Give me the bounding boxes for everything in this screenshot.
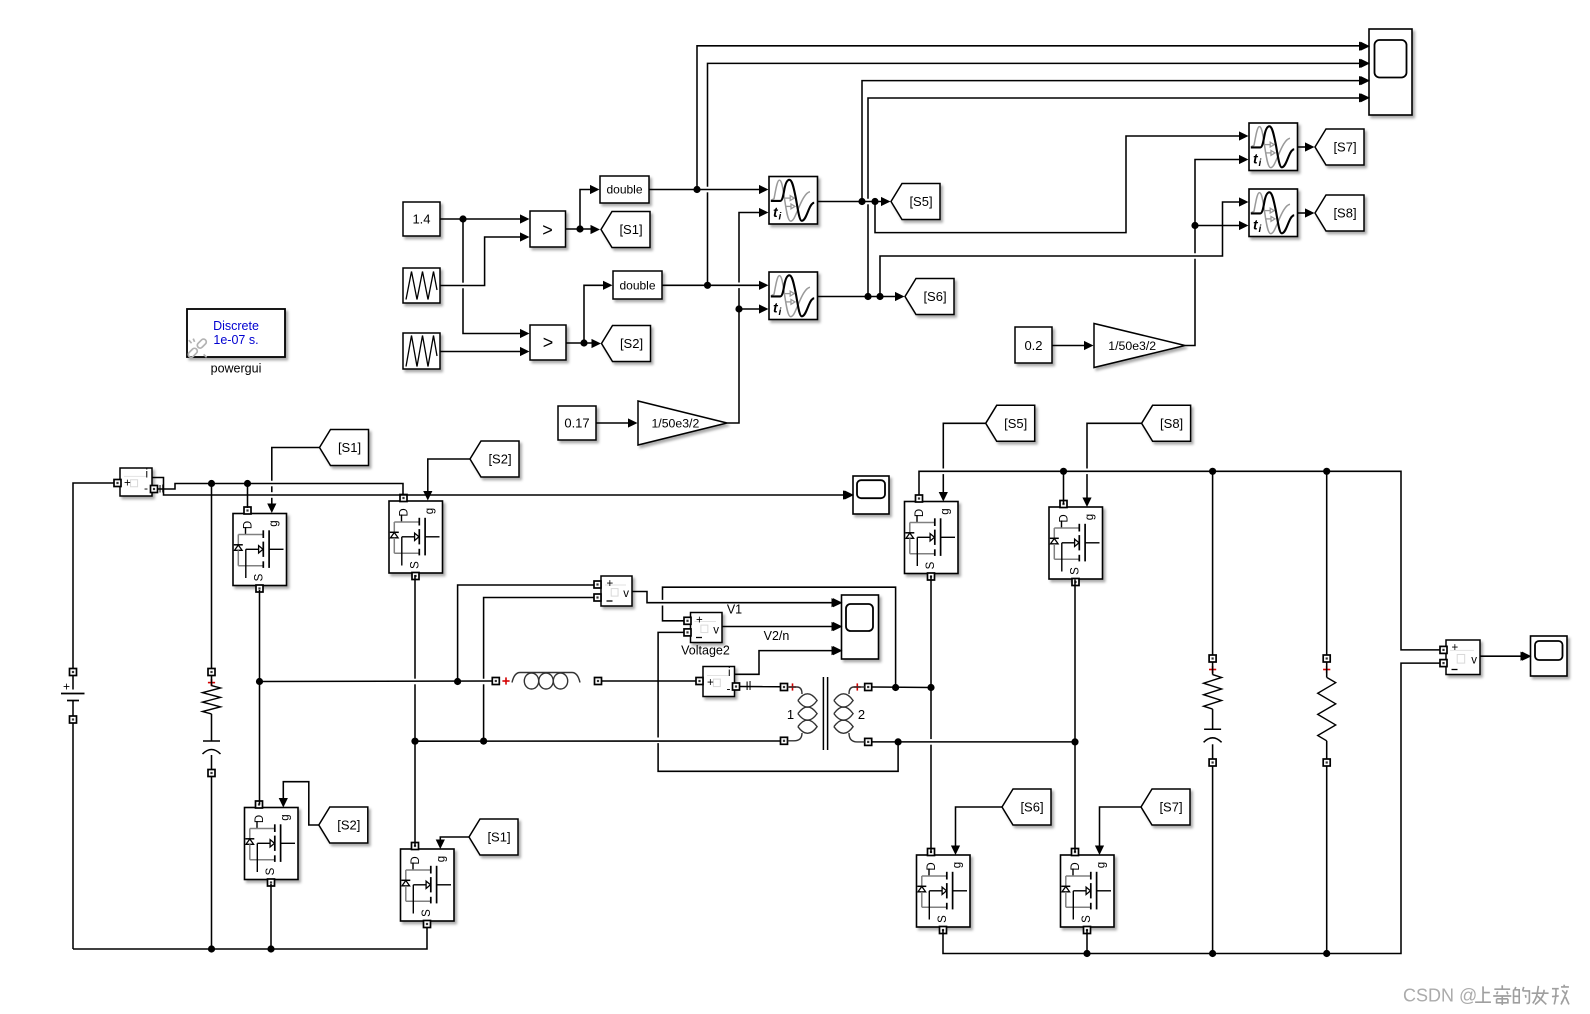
from tag [S1] (primary bottom) [469,819,518,855]
wire: delay U3 out to goto S7 [1298,146,1309,148]
goto tag [S1] [601,212,650,248]
svg-text:1.4: 1.4 [412,212,430,227]
svg-text:[S6]: [S6] [923,289,946,304]
mosfet Q8 (secondary bottom-right, gate S7) [1061,849,1115,934]
svg-text:Voltage2: Voltage2 [681,644,730,658]
wire: node B branch to V1 minus [483,684,485,741]
wire: constant 0.17 to gain1 [596,422,631,424]
wire: I1 current signal to Scope2 [152,478,847,496]
svg-text:1/50e3/2: 1/50e3/2 [1108,339,1156,353]
variable time delay block U1 (ti) [769,177,818,225]
goto tag [S6] [905,279,954,315]
svg-text:-: - [144,481,148,495]
wire: primary bottom rail [73,928,427,950]
mosfet Q3 (secondary top-left, gate S5) [905,495,959,580]
wire: triangle1 to relational1 in2 [440,237,521,286]
wire: R load bottom to secondary bottom rail [1326,766,1328,954]
goto tag [S2] [602,326,651,362]
wire: triangle2 to relational2 in2 [440,351,521,353]
voltage measurement block V1 [594,576,632,606]
wire: double2 to delay U2 in1 [662,284,762,286]
goto tag [S7] [1315,129,1364,165]
svg-text:i: i [145,469,148,481]
variable time delay block U4 (ti) [1249,189,1298,237]
svg-text:[S8]: [S8] [1333,206,1356,221]
wire: constant 0.2 to gain2 [1052,345,1087,347]
wire: gain1 to delay U2 in2 and U1 in2 [727,312,739,423]
wire: Q1 source to node A [259,590,261,678]
svg-text:[S2]: [S2] [620,336,643,351]
svg-text:+: + [707,677,714,689]
wire: relational2 out branch to double2 [584,285,605,343]
svg-text:i: i [728,667,731,679]
wire: Q7 source to secondary bottom rail [943,663,1442,953]
wire: from S2 top to Q2 gate [428,459,470,493]
wire: inductor to current measurement I2 [602,680,697,682]
relational operator block 2 (&gt;) [530,325,566,360]
wire: from S2 bottom to Q5 gate [283,782,319,825]
goto tag [S8] [1315,195,1364,231]
from tag [S7] (secondary) [1141,789,1190,825]
svg-text:2: 2 [858,707,865,722]
wire: I2 minus to transformer primary plus [740,686,781,688]
wire: V2 to Scope4 [1480,655,1524,657]
svg-text:1: 1 [787,707,794,722]
wire: Q2 source down to node B [414,575,416,679]
wire: rail down to Q4 drain [1063,471,1065,504]
wire: rail down to R load [1326,471,1328,655]
from tag [S5] (secondary) [986,405,1035,441]
svg-text:+: + [696,615,703,627]
dc voltage source E1 [61,497,85,949]
svg-text:[S1]: [S1] [487,830,510,845]
wire: I1 minus to primary top rail [158,484,404,495]
repeating sequence block 2 (triangle wave) [403,333,440,369]
wire: Voltage2 output to Scope3 in2 [722,626,835,628]
data type conversion block double 2 [613,271,662,299]
wire: from S5 to Q3 gate [943,423,985,468]
wire: RC load bottom to secondary bottom rail [1212,766,1214,954]
svg-text:powergui: powergui [211,362,262,376]
wire: from S7 to Q8 gate [1100,807,1142,848]
wire: delay U2 out to goto S6 [818,296,899,298]
svg-text:+: + [124,478,131,490]
svg-text:[S1]: [S1] [619,222,642,237]
wire: secondary top rail [919,471,1442,650]
wire: node A down to Q5 drain [259,682,261,805]
svg-text:[S7]: [S7] [1333,140,1356,155]
watermark chinese glyphs [1475,985,1569,1005]
svg-text:V1: V1 [727,603,742,617]
wire: constant 1.4 to relational1 in1 [440,218,521,220]
voltage measurement block V2 (output) [1440,640,1480,675]
svg-text:double: double [606,183,642,197]
wire: secondary plus to node C [872,686,931,689]
svg-text:>: > [542,220,553,240]
goto tag [S5] [891,184,940,220]
relational operator block 1 (&gt;) [530,211,566,247]
mosfet Q6 (primary bottom-right, gate S1) [401,843,455,928]
constant block 1.4 [403,202,440,236]
wire: node C down to Q7 drain [930,688,932,740]
wire: Q8 source down to bottom rail [1086,930,1088,954]
wire: node B down to Q6 drain [414,741,416,846]
svg-text:[S1]: [S1] [338,440,361,455]
from tag [S1] (primary top) [320,430,369,466]
constant block 0.17 [558,406,596,440]
svg-text:[S2]: [S2] [337,818,360,833]
svg-text:v: v [1471,654,1477,666]
svg-text:0.17: 0.17 [564,416,589,431]
wire: gain2 to delay U3 in2 and U4 in2 [1185,259,1195,346]
wire: U1 out branch up to Scope1 in3 [862,81,1362,202]
wire: from S1 bottom to Q6 gate [440,837,469,842]
constant block 0.2 [1015,327,1052,363]
svg-text:[S2]: [S2] [488,452,511,467]
wire: dc+ to I1 plus [73,483,114,497]
wire: U1 out branch to delay U3 in1 [875,136,1242,233]
wire: rail branch down to Q1 drain [247,484,249,509]
svg-text:[S7]: [S7] [1159,800,1182,815]
repeating sequence block 1 (triangle wave) [403,268,440,303]
wire: delay U1 out to goto S5 [818,201,885,203]
scope block Scope4 (output voltage) [1522,636,1567,676]
gain block 1/50e3/2 (right) [1094,324,1185,368]
svg-text:+: + [607,578,614,590]
svg-text:0.2: 0.2 [1024,338,1042,353]
wire: double1 branch up to Scope1 in1 [697,46,1362,190]
wire: secondary bottom wire [872,741,1075,743]
from tag [S6] (secondary) [1002,789,1051,825]
wire: from S6 to Q7 gate [956,807,1003,848]
from tag [S2] (primary top) [470,441,519,477]
transformer T1 [781,677,872,750]
scope block Scope2 (current) [845,476,890,514]
svg-text:+: + [1452,642,1459,654]
svg-text:[S6]: [S6] [1020,800,1043,815]
wire: 1.4 branch down to relational2 in1 [462,219,464,283]
powergui block [187,309,285,358]
gain block 1/50e3/2 (left) [638,401,727,445]
mosfet Q1 (primary top-left, gate S1) [233,507,287,592]
data type conversion block double 1 [600,176,649,203]
wire: from S1 top to Q1 gate [272,448,320,481]
svg-text:1/50e3/2: 1/50e3/2 [651,416,699,430]
svg-text:CSDN @: CSDN @ [1403,986,1477,1006]
wire: U2 out branch up to Scope1 in4 [867,204,869,296]
from tag [S8] (secondary) [1142,405,1191,441]
svg-text:1e-07 s.: 1e-07 s. [213,333,258,347]
svg-text:[S5]: [S5] [909,194,932,209]
wire: node B to transformer primary bottom [415,740,781,742]
svg-text:-: - [727,682,731,696]
svg-text:V2/n: V2/n [764,629,790,643]
svg-text:>: > [543,333,554,353]
wire: relational2 out to goto S2 [566,342,593,344]
inductor L1 [492,673,601,690]
wire: delay U4 out to goto S8 [1298,212,1309,214]
wire: relational1 out to goto S1 [566,228,593,230]
svg-text:double: double [619,279,655,293]
scope block Scope1 (4 inputs) [1361,29,1413,115]
svg-text:[S8]: [S8] [1160,416,1183,431]
wire: Q3 source down to node C [930,576,932,688]
wire: V1 to Scope3 in1 [632,592,835,603]
wire: U2 out branch to delay U4 in1 [880,202,1242,297]
current measurement block I1 [114,468,158,496]
mosfet Q5 (primary bottom-left, gate S2) [245,801,299,886]
wire: node A to inductor [260,680,493,683]
series RLC branch R-C (left damping) [203,487,221,949]
wire: relational1 out branch to double1 [580,190,592,230]
svg-text:v: v [713,625,719,637]
from tag [S2] (primary bottom) [319,807,368,843]
wire: double1 to delay U1 in1 [649,189,762,191]
wire: double2 branch up to Scope1 in2 [707,192,709,285]
svg-text:[S5]: [S5] [1004,416,1027,431]
svg-text:v: v [623,588,629,600]
wire: node A branch to V1 plus [458,585,595,682]
wire: Q4 source down through node D to Q8 drain [1074,580,1076,742]
current measurement block I2 [696,667,740,697]
wire: from S8 to Q4 gate [1087,423,1142,468]
mosfet Q4 (secondary top-right, gate S8) [1049,501,1103,586]
mosfet Q2 (primary top-right, gate S2) [389,495,443,580]
wire: I2 current signal to Scope3 in3 [735,651,836,675]
wire: rail down to RC load [1212,471,1214,655]
variable time delay block U3 (ti) [1249,123,1298,171]
voltage measurement block Voltage2 [684,613,722,643]
scope block Scope3 (V1 V2 Il) [833,595,879,659]
variable time delay block U2 (ti) [769,272,818,320]
series RLC branch R load (secondary) [1318,655,1336,766]
svg-text:Discrete: Discrete [213,319,259,333]
svg-text:+: + [63,680,70,694]
wire: transformer secondary plus to Voltage2 plus [663,587,896,687]
wire: Voltage2 minus loop to secondary bottom [658,632,684,737]
series RLC branch R-C load (secondary) [1204,655,1222,766]
wire: Q5 source to primary bottom rail [270,884,272,949]
mosfet Q7 (secondary bottom-left, gate S6) [917,849,971,934]
